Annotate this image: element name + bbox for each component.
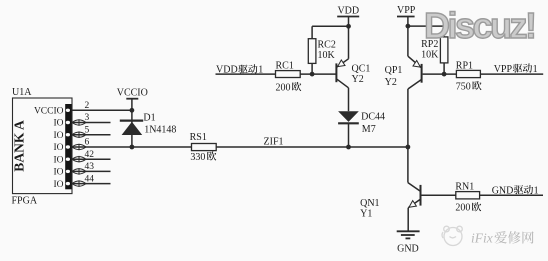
pin 3 bidirectional arrow (72, 119, 86, 126)
pin names VCCIO/IO (34, 107, 64, 190)
svg-text:200: 200 (276, 82, 291, 93)
resistor RP1 (456, 70, 480, 77)
svg-text:ZIF1: ZIF1 (264, 136, 284, 147)
pin 43 wire stub (72, 170, 111, 172)
junction DC44/ZIF1 (346, 145, 351, 150)
svg-text:RP1: RP1 (456, 61, 473, 72)
svg-text:IO: IO (53, 180, 63, 190)
junction ZIF1 node (406, 145, 411, 150)
svg-text:RC1: RC1 (276, 60, 294, 71)
diode DC44 M7 (338, 111, 359, 147)
svg-text:750: 750 (456, 81, 471, 92)
svg-text:1: 1 (533, 64, 538, 75)
svg-text:1N4148: 1N4148 (144, 125, 176, 136)
junction VPP/RP2 branch (406, 24, 411, 29)
wire VPP rail to RP2 top (408, 25, 444, 27)
svg-text:QP1: QP1 (385, 65, 403, 76)
wire VDD drive to RC1 (216, 73, 276, 75)
transistor QP1 (PNP, mirrored) (408, 56, 422, 147)
svg-text:IO: IO (53, 119, 63, 129)
svg-text:1: 1 (534, 185, 539, 196)
svg-text:RC2: RC2 (318, 40, 336, 51)
svg-text:42: 42 (85, 150, 95, 160)
RC1 value 200 ohm (276, 82, 302, 93)
pin 6 wire / net ZIF1 main wire (72, 146, 409, 148)
svg-text:IO: IO (53, 168, 63, 178)
RS1 value 330 ohm (190, 151, 216, 162)
svg-text:10K: 10K (421, 50, 439, 61)
svg-text:GND: GND (492, 185, 514, 196)
wire RP1 to VPP drive (480, 73, 543, 75)
svg-text:Y1: Y1 (360, 209, 372, 220)
svg-text:200: 200 (455, 203, 470, 214)
junction RC2/base wire (310, 72, 315, 77)
resistor RC1 (276, 71, 301, 78)
svg-text:44: 44 (85, 174, 95, 184)
wire QP1 base to RP1 (423, 73, 457, 75)
power symbol VPP (397, 5, 416, 56)
RP1 value 750 ohm (456, 81, 482, 92)
svg-text:43: 43 (85, 162, 95, 172)
svg-text:QN1: QN1 (360, 198, 379, 209)
svg-text:Discuz!: Discuz! (424, 5, 535, 46)
pin 44 bidirectional arrow (72, 180, 86, 187)
pin 44 wire stub (72, 183, 111, 185)
svg-text:VDD: VDD (337, 6, 359, 17)
pin 2 wire (VCCIO) (72, 109, 132, 111)
svg-text:DC44: DC44 (361, 112, 385, 123)
svg-text:IO: IO (53, 155, 63, 165)
wire RN1 to GND drive (480, 194, 543, 196)
pin 6 bidirectional arrow (72, 144, 86, 151)
pin numbers 2,3,5,6,42,43,44 (85, 101, 95, 184)
junction RP2/QP1 base (442, 72, 447, 77)
svg-text:VCCIO: VCCIO (117, 88, 148, 99)
junction VDD/RC2 branch (346, 24, 351, 29)
wire RC2 top to VDD rail (312, 25, 348, 27)
pin 42 wire stub (72, 158, 111, 160)
pin 43 bidirectional arrow (72, 168, 86, 175)
power symbol VDD (337, 6, 359, 59)
net label VPP drive 1 (494, 63, 538, 74)
svg-text:Y2: Y2 (385, 77, 397, 88)
pin 5 bidirectional arrow (72, 131, 86, 138)
pin 5 wire stub (72, 134, 111, 136)
power symbol VCCIO (117, 88, 148, 148)
svg-text:VPP: VPP (494, 64, 513, 75)
wire QN1 base to RN1 (422, 194, 456, 196)
svg-text:RS1: RS1 (190, 132, 207, 143)
watermark iFix text (decorative) (471, 231, 534, 246)
watermark iFix logo (decorative) (442, 226, 462, 245)
svg-text:M7: M7 (362, 124, 376, 135)
wire RC1 to QC1 base (300, 73, 336, 75)
junction D1/ZIF1 (130, 145, 135, 150)
RN1 value 200 ohm (455, 202, 481, 213)
svg-text:IO: IO (53, 143, 63, 153)
net label VDD drive 1 (216, 64, 263, 75)
svg-text:FPGA: FPGA (12, 196, 38, 207)
resistor RP2 (440, 26, 448, 74)
diode D1 1N4148 (clamp to VCCIO) (120, 121, 143, 135)
transistor QN1 (NPN, mirrored) (408, 147, 421, 231)
svg-text:QC1: QC1 (352, 64, 371, 75)
svg-text:VPP: VPP (397, 5, 416, 16)
svg-text:iFix: iFix (471, 231, 493, 246)
svg-text:10K: 10K (318, 50, 336, 61)
junction pin2/VCCIO (130, 108, 135, 113)
svg-text:D1: D1 (143, 112, 155, 123)
resistor RC2 (308, 26, 316, 74)
svg-text:GND: GND (397, 243, 419, 254)
resistor RN1 (456, 192, 480, 199)
FPGA IC U1A (12, 98, 73, 194)
svg-text:330: 330 (190, 152, 205, 163)
svg-text:2: 2 (85, 101, 90, 111)
svg-text:IO: IO (53, 131, 63, 141)
transistor QC1 (PNP) (336, 59, 348, 111)
resistor RS1 (192, 144, 217, 151)
ground symbol GND (397, 231, 420, 238)
svg-text:VCCIO: VCCIO (34, 107, 64, 117)
pin 42 bidirectional arrow (72, 156, 86, 163)
svg-text:U1A: U1A (12, 87, 32, 98)
svg-text:Y2: Y2 (352, 74, 364, 85)
pin 3 wire stub (72, 122, 111, 124)
svg-text:RN1: RN1 (455, 182, 474, 193)
net label GND drive 1 (492, 185, 539, 196)
svg-text:BANK A: BANK A (12, 120, 27, 172)
